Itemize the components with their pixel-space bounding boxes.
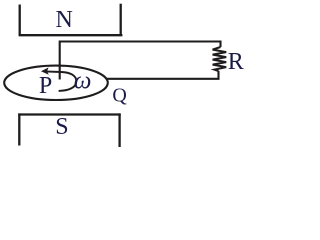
svg-text:ω: ω xyxy=(74,68,92,95)
disc (ellipse) xyxy=(4,66,108,100)
magnet pole S (bottom, open-bottom bracket) xyxy=(18,113,120,147)
resistor R (zigzag) xyxy=(213,47,227,71)
wire from resistor bottom left to disc rim Q xyxy=(106,71,219,79)
wire from disc axle P up and right to resistor xyxy=(60,42,221,80)
svg-text:R: R xyxy=(228,49,244,75)
svg-text:S: S xyxy=(55,114,68,140)
svg-text:Q: Q xyxy=(112,85,127,107)
svg-text:P: P xyxy=(39,73,52,99)
svg-text:N: N xyxy=(56,7,73,33)
magnet pole N (top, open-top bracket) xyxy=(19,4,123,36)
rotation arrow (curved, arrowhead at left) xyxy=(41,67,76,91)
